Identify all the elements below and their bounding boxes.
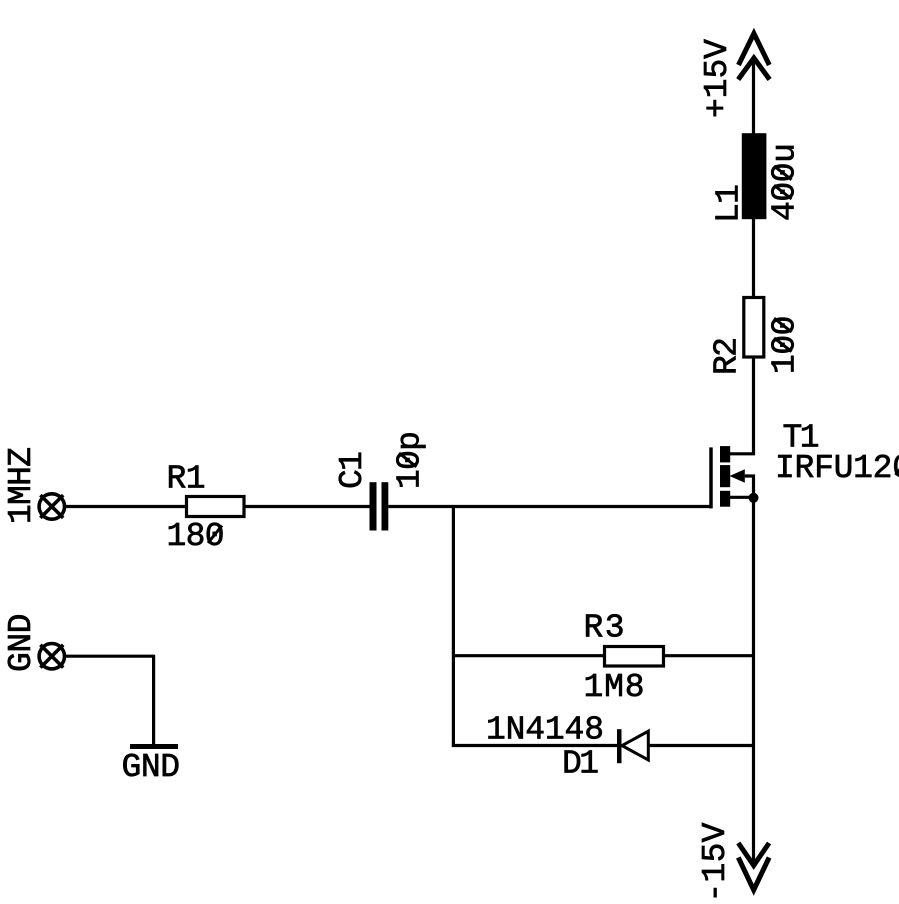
supply -15V arrow: [738, 843, 769, 890]
wire branch to D1: [452, 744, 618, 747]
wire +15V to L1: [752, 57, 755, 134]
wire input to R1: [65, 505, 187, 508]
wire C1 to gate: [388, 505, 711, 508]
value 100: [767, 316, 804, 375]
svg-text:+15V: +15V: [699, 39, 736, 118]
body arrow: [730, 469, 745, 483]
resistor R2: [744, 298, 764, 358]
value 10p: [392, 431, 429, 489]
wire GND terminal: [65, 655, 154, 658]
source wire: [730, 496, 754, 499]
svg-text:D1: D1: [562, 745, 599, 782]
resistor R3: [605, 647, 664, 667]
svg-text:-15V: -15V: [697, 822, 734, 902]
svg-text:1N4148: 1N4148: [486, 712, 604, 749]
svg-text:R2: R2: [709, 337, 746, 375]
svg-text:R1: R1: [167, 461, 206, 498]
svg-text:400u: 400u: [767, 143, 804, 221]
ground symbol: [130, 744, 178, 749]
resistor R1: [187, 497, 245, 517]
svg-text:GND: GND: [122, 749, 181, 786]
source contact bar: [720, 491, 730, 507]
value IRFU120: [775, 450, 899, 487]
wire source to -15V rail: [752, 497, 755, 865]
terminal pad 1MHZ: [39, 494, 64, 519]
svg-text:1M8: 1M8: [584, 669, 645, 706]
body wire: [745, 476, 754, 497]
source-body junction dot: [749, 493, 759, 503]
wire to R3 left: [453, 654, 604, 657]
svg-text:L1: L1: [711, 184, 748, 223]
value 180: [167, 518, 225, 555]
gate bar: [709, 447, 713, 508]
svg-text:IRFU120: IRFU120: [775, 450, 899, 487]
terminal pad GND: [39, 644, 64, 669]
wire R3 right to rail: [664, 654, 755, 657]
svg-text:180: 180: [167, 518, 225, 555]
svg-text:1MHZ: 1MHZ: [3, 447, 40, 524]
wire branch down from gate net: [452, 507, 455, 748]
body contact bar: [720, 465, 730, 487]
wire D1 to rail: [648, 744, 755, 747]
transistor T1 (n-mosfet): [711, 446, 759, 508]
svg-text:C1: C1: [334, 451, 371, 489]
svg-text:R3: R3: [584, 609, 625, 646]
wire R2 to drain: [730, 356, 754, 454]
drain contact bar: [720, 446, 730, 462]
supply +15V arrow: [738, 34, 769, 80]
capacitor C1: [370, 482, 389, 530]
svg-text:GND: GND: [3, 614, 40, 673]
diode D1: [617, 729, 648, 763]
wire down to ground: [152, 655, 155, 747]
value 400u: [767, 143, 804, 221]
wire L1 to R2: [752, 219, 755, 297]
wire R1 to C1: [245, 505, 370, 508]
inductor L1: [742, 133, 767, 219]
